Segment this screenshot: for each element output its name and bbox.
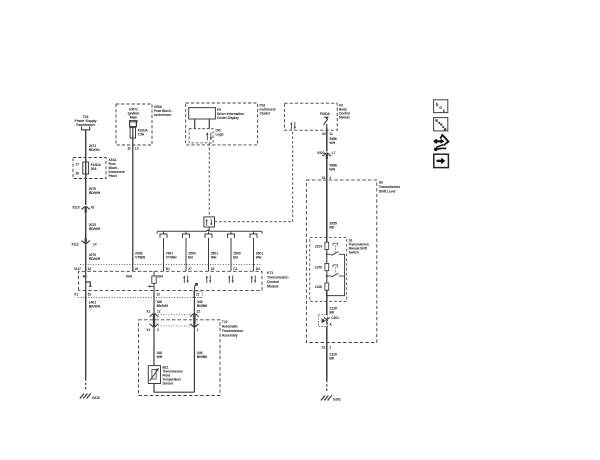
svg-text:VT/WH: VT/WH	[166, 256, 177, 260]
svg-text:27: 27	[76, 163, 80, 167]
svg-text:Center Display: Center Display	[217, 116, 239, 120]
svg-text:D4: D4	[256, 267, 260, 271]
svg-text:Logic: Logic	[216, 133, 225, 137]
resistor 1138	[325, 283, 329, 290]
toolbar icon dots box	[434, 118, 448, 131]
arrows in logic box	[207, 133, 211, 141]
svg-text:14: 14	[93, 242, 97, 246]
feed to splice bus	[208, 227, 210, 231]
svg-text:BU: BU	[188, 256, 193, 260]
svg-text:X1: X1	[146, 328, 150, 332]
svg-text:RD/GN: RD/GN	[89, 148, 100, 152]
TCM bottom pins	[74, 293, 199, 297]
toolbar icon route arrow	[434, 135, 449, 151]
svg-text:Transmission: Transmission	[222, 329, 243, 333]
svg-text:C1: C1	[233, 267, 237, 271]
svg-text:7.5A: 7.5A	[138, 133, 145, 137]
connector C301	[318, 315, 327, 327]
svg-text:30A: 30A	[91, 167, 97, 171]
relay KR71 contact	[130, 121, 137, 127]
svg-text:Panel: Panel	[109, 174, 117, 178]
wire into B+ and internal driver symbol	[86, 271, 91, 285]
svg-text:o: o	[439, 105, 442, 110]
ground G202	[321, 396, 332, 401]
wire label 2471 RD/GN	[89, 144, 100, 152]
svg-text:D1: D1	[166, 267, 170, 271]
svg-text:Transmission: Transmission	[267, 276, 288, 280]
svg-text:RD/WH: RD/WH	[89, 191, 101, 195]
svg-text:2314: 2314	[315, 244, 322, 248]
svg-text:1: 1	[197, 328, 199, 332]
svg-text:BK/WH: BK/WH	[89, 305, 101, 309]
svg-text:b: b	[436, 102, 439, 107]
svg-text:L3: L3	[135, 146, 139, 150]
svg-text:X1: X1	[322, 176, 326, 180]
connector X112 pin 14	[81, 241, 90, 244]
svg-text:32: 32	[88, 267, 92, 271]
TFT sensor B12 box	[148, 366, 160, 384]
connector X210 pin 42	[81, 207, 90, 210]
drop 2 wire	[185, 238, 187, 271]
resistor 2314	[325, 242, 329, 249]
svg-text:Assembly: Assembly	[222, 334, 238, 338]
svg-text:IGN: IGN	[126, 275, 132, 279]
drop 5 wire	[253, 238, 255, 271]
svg-text:X320: X320	[317, 151, 325, 155]
svg-text:Shift Lever: Shift Lever	[379, 190, 397, 194]
BCM K9 dashed box	[284, 103, 337, 130]
svg-text:X112: X112	[71, 242, 78, 246]
wire and junction	[326, 249, 328, 263]
BCM output pins	[322, 132, 333, 136]
svg-text:26: 26	[76, 172, 80, 176]
svg-text:31: 31	[127, 146, 131, 150]
wire BCM to X320	[326, 128, 328, 151]
splice bus	[157, 230, 262, 234]
drop 4 wire	[230, 238, 232, 271]
drop 4 connector	[228, 231, 235, 238]
label X51A Fuse Block - Instrument Panel	[109, 158, 126, 178]
serial data interface box	[204, 217, 215, 227]
svg-text:Transmission: Transmission	[379, 185, 400, 189]
wire X320 to shift lever	[326, 157, 328, 181]
svg-text:X117: X117	[74, 267, 81, 271]
display legs	[195, 119, 210, 129]
drop 3 wire	[208, 238, 210, 271]
svg-text:12: 12	[156, 293, 160, 297]
TCM bottom dotted connector line	[78, 296, 203, 298]
svg-text:VT/BN: VT/BN	[135, 256, 146, 260]
internal left arrow	[149, 285, 154, 287]
svg-text:B+: B+	[83, 275, 87, 279]
BCM internal arrows	[291, 122, 294, 129]
svg-text:G202: G202	[333, 398, 341, 402]
display P9	[189, 108, 216, 119]
svg-text:12: 12	[157, 309, 161, 313]
transmission T12 dashed box	[139, 320, 221, 396]
wire relay to TCM	[132, 138, 134, 271]
fuse F32UA	[130, 128, 135, 138]
svg-text:1138: 1138	[315, 285, 322, 289]
svg-text:S3: S3	[379, 181, 383, 185]
transformer T16 label	[75, 115, 97, 127]
serial dashed wire to BCM	[215, 130, 293, 222]
svg-text:1376: 1376	[315, 266, 322, 270]
svg-text:Switch: Switch	[349, 251, 359, 255]
sensor return wire	[193, 290, 195, 392]
svg-text:2: 2	[329, 346, 331, 350]
svg-text:Underhood: Underhood	[154, 113, 171, 117]
TFT pull-up resistor	[153, 271, 155, 276]
connector X320 pin L7	[322, 153, 331, 156]
toolbar icon letters box	[434, 100, 448, 113]
svg-text:BU: BU	[233, 256, 238, 260]
wire and junction	[326, 271, 328, 283]
toolbar icon arrow box	[434, 154, 449, 167]
svg-text:24: 24	[211, 267, 215, 271]
serial data dashed wire down	[208, 143, 210, 217]
wire transformer to fuse block	[85, 130, 87, 162]
pins 31 L3	[127, 146, 138, 150]
sensor return internal dot	[194, 285, 196, 290]
svg-text:20: 20	[135, 267, 139, 271]
shift lever S3 dashed box	[306, 180, 376, 342]
svg-text:RD/WH: RD/WH	[89, 227, 101, 231]
svg-text:X2: X2	[322, 132, 326, 136]
instrument cluster P16 dashed box	[186, 103, 258, 145]
thermistor symbol	[152, 370, 156, 380]
svg-text:-C301: -C301	[330, 316, 339, 320]
svg-text:BN/WH: BN/WH	[157, 304, 169, 308]
svg-text:52: 52	[88, 293, 92, 297]
svg-text:G415: G415	[92, 396, 100, 400]
svg-text:27: 27	[188, 267, 192, 271]
relay block X50A dashed box	[116, 104, 152, 145]
drop 1 wire	[163, 238, 165, 271]
svg-text:c: c	[443, 108, 446, 113]
svg-text:X1: X1	[146, 309, 150, 313]
svg-text:Sensor: Sensor	[163, 382, 174, 386]
svg-text:T12: T12	[222, 320, 228, 324]
TCM K71 dashed box	[79, 271, 263, 290]
svg-text:42: 42	[91, 206, 95, 210]
ground G415	[80, 394, 91, 399]
svg-text:Cluster: Cluster	[260, 112, 271, 116]
switch 1	[327, 253, 331, 255]
svg-text:22: 22	[196, 293, 200, 297]
breaker symbol	[324, 117, 329, 120]
TCM pin row	[74, 267, 260, 271]
ground wire from TCM pin 52	[85, 290, 87, 378]
svg-text:WH: WH	[256, 256, 262, 260]
sensor bottom loop	[154, 384, 194, 393]
wire X112 to TCM	[85, 245, 87, 272]
internal wire labels	[157, 351, 208, 359]
svg-text:X1: X1	[74, 293, 78, 297]
wire X210 to X112	[85, 212, 87, 239]
TCM internal arrow pairs	[184, 276, 255, 284]
wire fuse to X210	[85, 174, 87, 205]
svg-text:WH: WH	[329, 141, 335, 145]
svg-text:IGN: IGN	[157, 275, 163, 279]
svg-text:X210: X210	[72, 206, 80, 210]
svg-text:11: 11	[329, 132, 333, 136]
drop 1 connector	[160, 231, 167, 238]
svg-text:Automatic: Automatic	[222, 325, 238, 329]
svg-text:Module: Module	[267, 284, 279, 288]
svg-text:WH: WH	[211, 256, 217, 260]
svg-text:Module: Module	[339, 116, 350, 120]
fuse F10DA	[83, 162, 89, 174]
resistor 1376	[325, 264, 329, 271]
drop wire labels	[166, 252, 264, 260]
svg-text:K71: K71	[267, 271, 273, 275]
label X50A Fuse Block - Underhood	[154, 105, 172, 117]
switch common rail	[327, 254, 345, 295]
svg-text:22: 22	[197, 309, 201, 313]
svg-text:X1: X1	[322, 346, 326, 350]
switch 2	[327, 275, 331, 277]
svg-text:2: 2	[329, 176, 331, 180]
svg-text:RD: RD	[329, 226, 334, 230]
svg-text:BK: BK	[329, 356, 334, 360]
transformer T16 stub symbol	[82, 127, 90, 130]
svg-text:A: A	[329, 323, 332, 327]
internal pin labels	[83, 275, 164, 279]
wire into switch	[326, 180, 328, 242]
svg-text:2: 2	[157, 328, 159, 332]
svg-text:L7: L7	[332, 151, 336, 155]
TFT signal wire to transmission	[153, 290, 155, 365]
drop 3 connector	[205, 231, 212, 238]
fuse block X51A dashed box	[73, 158, 106, 179]
svg-text:F22DA: F22DA	[320, 112, 331, 116]
drop 2 connector	[183, 231, 190, 238]
svg-text:Transformer: Transformer	[76, 123, 96, 127]
logic dashed box	[189, 129, 213, 143]
wire to ground	[326, 348, 328, 380]
wire out of switch	[326, 290, 328, 315]
svg-text:BK: BK	[329, 311, 334, 315]
manual shift switch S1 dashed box	[310, 238, 347, 302]
svg-text:WH: WH	[329, 168, 335, 172]
TCM X1 connector dotted line	[80, 264, 262, 266]
svg-text:BN/BK: BN/BK	[197, 355, 208, 359]
svg-text:BN/BK: BN/BK	[197, 304, 208, 308]
drop 5 connector	[250, 231, 257, 238]
inline connector pair at transmission	[150, 314, 159, 317]
wire to S3 box edge	[326, 326, 328, 348]
svg-text:WH: WH	[157, 355, 163, 359]
svg-text:RD/WH: RD/WH	[89, 257, 101, 261]
